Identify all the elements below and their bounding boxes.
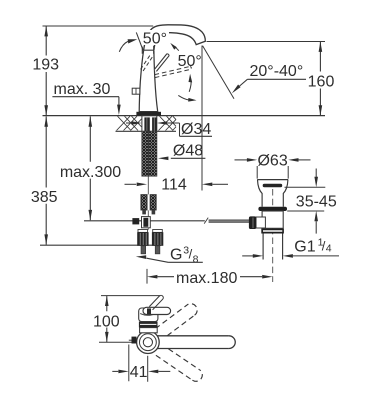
svg-text:G: G [170, 247, 182, 264]
svg-text:385: 385 [31, 189, 58, 206]
faucet centerline (vertical axis) [147, 103, 149, 230]
lever swing extension line [136, 32, 143, 49]
svg-text:4: 4 [326, 242, 332, 254]
drain collar o-ring [258, 207, 287, 211]
svg-text:Ø63: Ø63 [257, 152, 287, 169]
spout outlet extension line (vertical) [201, 46, 203, 191]
hose end extension line [40, 244, 161, 246]
lever (top view) [143, 307, 171, 314]
svg-text:193: 193 [32, 57, 59, 74]
drain body [262, 211, 283, 228]
dashed lever stem inside body [141, 55, 150, 69]
svg-text:50°: 50° [143, 31, 167, 48]
water stream line [203, 46, 234, 99]
dimension 41 [129, 345, 148, 382]
drain side port [256, 217, 265, 228]
mounting shank outline [142, 116, 157, 132]
50-degree label (handle) [142, 30, 170, 45]
svg-text:Ø48: Ø48 [173, 143, 203, 160]
counter cross-section below deck [116, 130, 177, 132]
hose connector nuts [138, 230, 148, 233]
dimension 114 [125, 183, 137, 185]
pop-up rod cross fitting [132, 218, 139, 224]
faucet base escutcheon [136, 112, 161, 116]
50-degree swing arc arrow [119, 41, 128, 52]
dimension 193 [45, 26, 47, 116]
shank studs [144, 117, 149, 131]
dimension 385 [45, 116, 47, 244]
hose nipples [141, 246, 146, 254]
extension line at raised lever tip level [101, 295, 161, 297]
drain nut band [261, 229, 284, 234]
svg-text:G1: G1 [294, 239, 315, 256]
svg-text:160: 160 [308, 74, 335, 91]
spout (top view, solid) [157, 336, 229, 349]
svg-text:max.180: max.180 [176, 270, 237, 287]
lever (solid, tilted open position) [154, 54, 169, 72]
dimension 100 [106, 296, 108, 343]
spout and neck outline [144, 25, 206, 50]
pop-up rod (horizontal) [84, 220, 205, 222]
lever lift arc arrow [189, 79, 191, 92]
lever raised position (solid tilted) [149, 295, 163, 309]
valve body (top view) [140, 328, 158, 333]
160 top extension line (outlet level) [207, 41, 326, 43]
swivel base circle inner [143, 338, 152, 347]
rod stub (top view) [129, 339, 132, 341]
svg-text:8: 8 [193, 253, 199, 265]
extension line at spout axis level [99, 341, 139, 343]
drain flange (trumpet) [257, 179, 288, 181]
svg-text:100: 100 [93, 313, 120, 330]
svg-text:41: 41 [130, 364, 148, 381]
dimension max.180 [146, 269, 148, 284]
dashed lever fully-open position (horizontal) [155, 66, 191, 77]
svg-text:50°: 50° [178, 53, 202, 70]
deck hatching right [159, 116, 177, 130]
dashed spout swivel position lower [156, 349, 202, 382]
faucet body (front view) [139, 51, 158, 112]
dimension arrows diameter 34 [126, 122, 132, 124]
dimension 160 [319, 42, 321, 116]
svg-text:35-45: 35-45 [296, 193, 337, 210]
pop-up rod knob on body [132, 88, 140, 94]
spout swivel arc arrow [178, 95, 188, 100]
drain centerline [272, 189, 274, 282]
svg-text:Ø34: Ø34 [181, 121, 211, 138]
dashed spout swivel position upper [155, 304, 197, 336]
top extension line (spout top level) [43, 25, 154, 27]
swivel base circle outer [137, 331, 160, 354]
drain tailpipe [263, 234, 283, 260]
swivel base circle middle [140, 334, 157, 351]
deck hatching left [117, 116, 142, 130]
dimension 35-45 [285, 187, 326, 211]
svg-text:114: 114 [161, 176, 187, 193]
svg-text:max. 30: max. 30 [54, 81, 111, 98]
dimension max.300 [89, 116, 91, 220]
lever pivot ring [142, 46, 153, 54]
braided hose ends [141, 195, 147, 210]
drain flange extension lines [257, 166, 288, 179]
drain rod knob [249, 216, 256, 229]
svg-text:20°-40°: 20°-40° [250, 63, 304, 80]
pop-up plug seen in flange [263, 184, 283, 187]
svg-text:max.300: max.300 [60, 164, 121, 181]
dimension diameter 63 [235, 159, 248, 161]
deck mounting plane line [43, 115, 326, 117]
threaded shank braided columns [142, 131, 148, 176]
